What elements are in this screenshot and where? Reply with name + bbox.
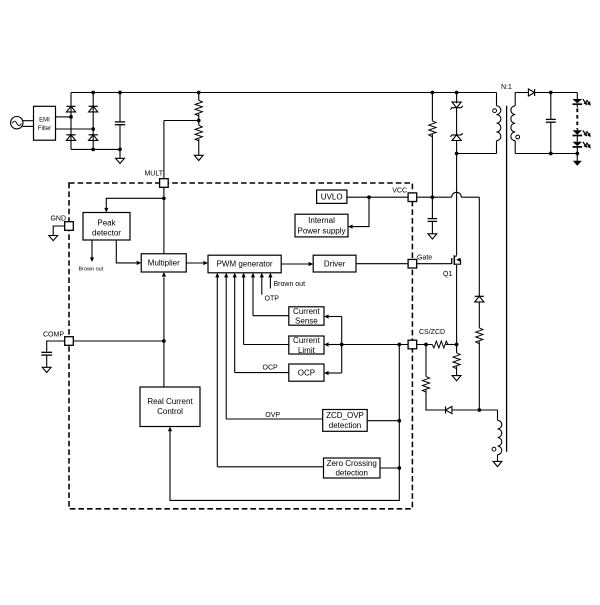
svg-text:Current: Current <box>293 307 320 316</box>
svg-text:OTP: OTP <box>265 296 280 303</box>
svg-text:Real Current: Real Current <box>147 397 193 406</box>
svg-text:CS/ZCD: CS/ZCD <box>419 329 445 336</box>
svg-text:UVLO: UVLO <box>321 193 343 202</box>
svg-text:Brown out: Brown out <box>79 267 104 273</box>
svg-text:OCP: OCP <box>298 368 315 377</box>
svg-text:detection: detection <box>329 421 361 430</box>
svg-text:OVP: OVP <box>265 412 280 419</box>
svg-text:VCC: VCC <box>392 188 407 195</box>
svg-text:detector: detector <box>92 229 121 238</box>
svg-text:Multiplier: Multiplier <box>148 259 180 268</box>
svg-text:Zero Crossing: Zero Crossing <box>327 459 377 468</box>
svg-text:Sense: Sense <box>295 317 318 326</box>
svg-text:Limit: Limit <box>298 346 316 355</box>
svg-text:EMI: EMI <box>39 117 50 123</box>
svg-text:ZCD_OVP: ZCD_OVP <box>326 411 364 420</box>
svg-text:Internal: Internal <box>308 216 335 225</box>
svg-text:N:1: N:1 <box>501 84 512 91</box>
svg-text:OCP: OCP <box>263 365 279 372</box>
svg-text:COMP: COMP <box>43 332 64 339</box>
svg-text:detection: detection <box>335 469 367 478</box>
svg-text:Power supply: Power supply <box>297 226 345 235</box>
svg-text:Brown out: Brown out <box>274 281 306 288</box>
svg-text:MULT: MULT <box>144 171 163 178</box>
svg-text:Peak: Peak <box>97 219 116 228</box>
svg-text:PWM generator: PWM generator <box>217 260 273 269</box>
svg-text:Driver: Driver <box>324 259 346 268</box>
svg-text:GND: GND <box>50 216 66 223</box>
svg-text:Gate: Gate <box>417 255 432 262</box>
svg-text:Current: Current <box>293 336 320 345</box>
svg-text:Filter: Filter <box>38 126 51 132</box>
svg-text:Control: Control <box>157 407 183 416</box>
svg-text:Q1: Q1 <box>443 271 452 278</box>
